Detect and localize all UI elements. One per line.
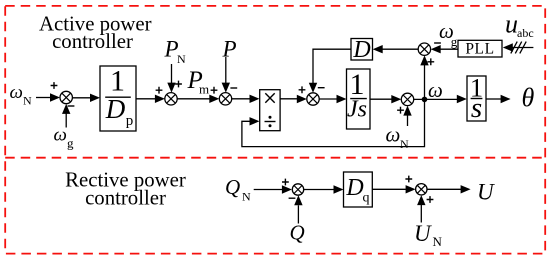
svg-text:abc: abc	[517, 26, 534, 40]
svg-text:s: s	[471, 92, 482, 124]
svg-text:D: D	[105, 94, 126, 124]
svg-text:controller: controller	[52, 30, 133, 53]
svg-text:ω: ω	[428, 78, 443, 102]
svg-text:U: U	[414, 221, 432, 246]
svg-text:ω: ω	[386, 123, 401, 147]
svg-text:N: N	[23, 94, 32, 108]
svg-text:D: D	[345, 175, 363, 201]
svg-text:ω: ω	[54, 125, 67, 146]
svg-text:D: D	[352, 37, 370, 63]
svg-text:ω: ω	[10, 82, 23, 103]
svg-text:controller: controller	[85, 187, 166, 210]
svg-text:PLL: PLL	[465, 41, 494, 58]
svg-text:p: p	[126, 113, 134, 129]
svg-text:g: g	[451, 34, 458, 49]
svg-text:m: m	[199, 82, 209, 97]
svg-text:1: 1	[110, 65, 125, 98]
svg-text:N: N	[400, 137, 409, 151]
svg-text:N: N	[177, 52, 186, 66]
svg-text:Q: Q	[225, 175, 240, 199]
svg-text:g: g	[67, 136, 74, 151]
svg-text:Js: Js	[347, 97, 367, 123]
svg-text:U: U	[477, 179, 495, 204]
svg-text:P: P	[222, 37, 237, 62]
svg-text:Q: Q	[290, 221, 305, 245]
svg-text:N: N	[242, 190, 251, 204]
svg-text:θ: θ	[522, 83, 535, 112]
svg-text:N: N	[433, 234, 443, 249]
svg-text:q: q	[363, 191, 370, 206]
